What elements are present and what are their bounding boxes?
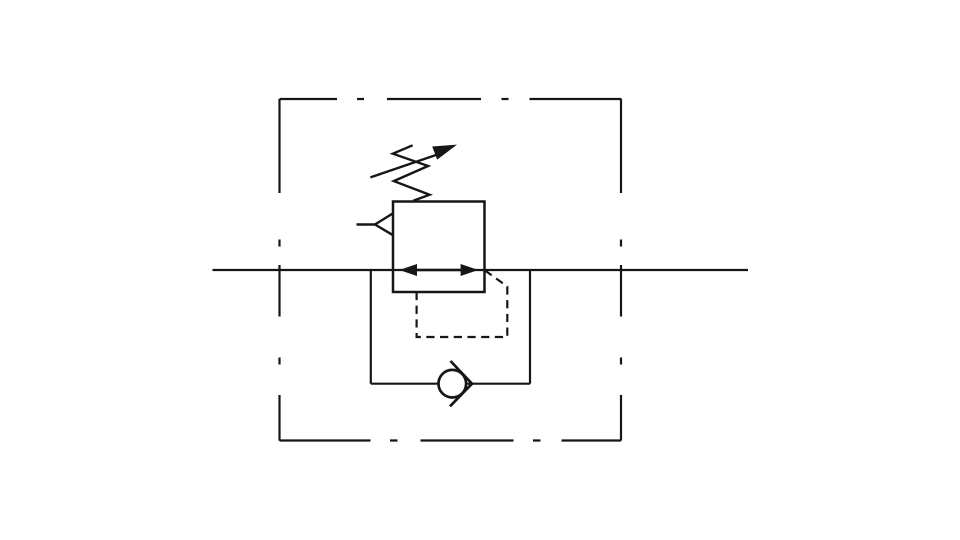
enclosure right edge (dash-dot) [620,99,622,441]
valve body (regulator square) [393,202,485,293]
spring (zigzag) above valve body [393,145,430,201]
flow arrow (double-headed) inside valve body [399,264,478,276]
pilot chevron (internal pilot) on left of body [357,213,394,235]
enclosure top edge (dash-dot) [280,98,622,100]
wire: bypass right vertical [529,270,531,384]
wire: main flow line P to A [213,269,749,271]
enclosure bottom edge (dash-dot) [280,439,622,441]
pilot line (dashed) from outlet to valve bottom [417,271,508,338]
adjustment arrow through spring [370,145,457,178]
check valve (circle and seat) [439,361,473,406]
wire: bypass bottom line [371,383,530,385]
enclosure left edge (dash-dot) [278,99,280,441]
wire: bypass left vertical [370,270,372,384]
